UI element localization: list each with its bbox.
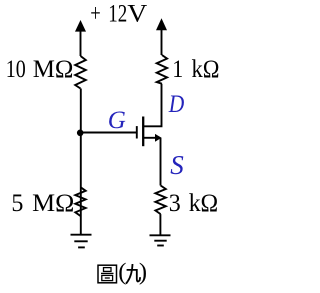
svg-text:(: (	[118, 259, 126, 286]
transistor Q1 gate bar	[136, 126, 138, 138]
ground left	[71, 235, 92, 248]
svg-text:kΩ: kΩ	[192, 56, 220, 83]
resistor R4 zigzag 3k	[155, 186, 165, 215]
svg-text:S: S	[170, 150, 184, 180]
wire left vertical from R1 to ground	[80, 89, 82, 236]
caption hanzi NINE	[126, 264, 140, 284]
VDD arrow left	[75, 20, 86, 56]
svg-text:MΩ: MΩ	[32, 190, 74, 217]
svg-text:1: 1	[172, 56, 183, 83]
wire gate horizontal	[80, 132, 137, 134]
transistor Q1 channel bar	[142, 117, 144, 147]
svg-text:10: 10	[6, 56, 26, 83]
VDD arrow right	[156, 18, 167, 55]
ground right	[150, 235, 171, 245]
transistor Q1 source lead with arrowhead	[143, 134, 161, 186]
resistor R2 label 1 kohm	[172, 56, 219, 83]
svg-text:G: G	[108, 107, 126, 134]
resistor R2 zigzag 1k	[157, 55, 167, 84]
node gate junction dot	[77, 130, 84, 137]
caption hanzi TU (figure)	[98, 265, 117, 283]
svg-text:kΩ: kΩ	[189, 190, 219, 217]
resistor R4 label 3 kohm	[169, 190, 219, 217]
resistor R1 zigzag 10M	[75, 56, 86, 89]
svg-text:MΩ: MΩ	[33, 56, 74, 83]
resistor R3 label 5 Mohm	[11, 190, 74, 217]
svg-text:D: D	[168, 91, 184, 118]
svg-text:): )	[139, 259, 147, 286]
resistor R3 zigzag 5M	[75, 187, 85, 216]
wire right vertical from R4 to ground	[159, 214, 161, 235]
svg-text:+: +	[90, 1, 101, 28]
svg-text:V: V	[127, 1, 147, 28]
svg-text:5: 5	[11, 190, 23, 217]
power supply label + 12V	[90, 1, 147, 28]
svg-text:12: 12	[108, 1, 127, 28]
svg-text:3: 3	[169, 190, 181, 217]
resistor R1 label 10 Mohm	[6, 56, 74, 83]
transistor Q1 drain lead	[143, 84, 161, 127]
